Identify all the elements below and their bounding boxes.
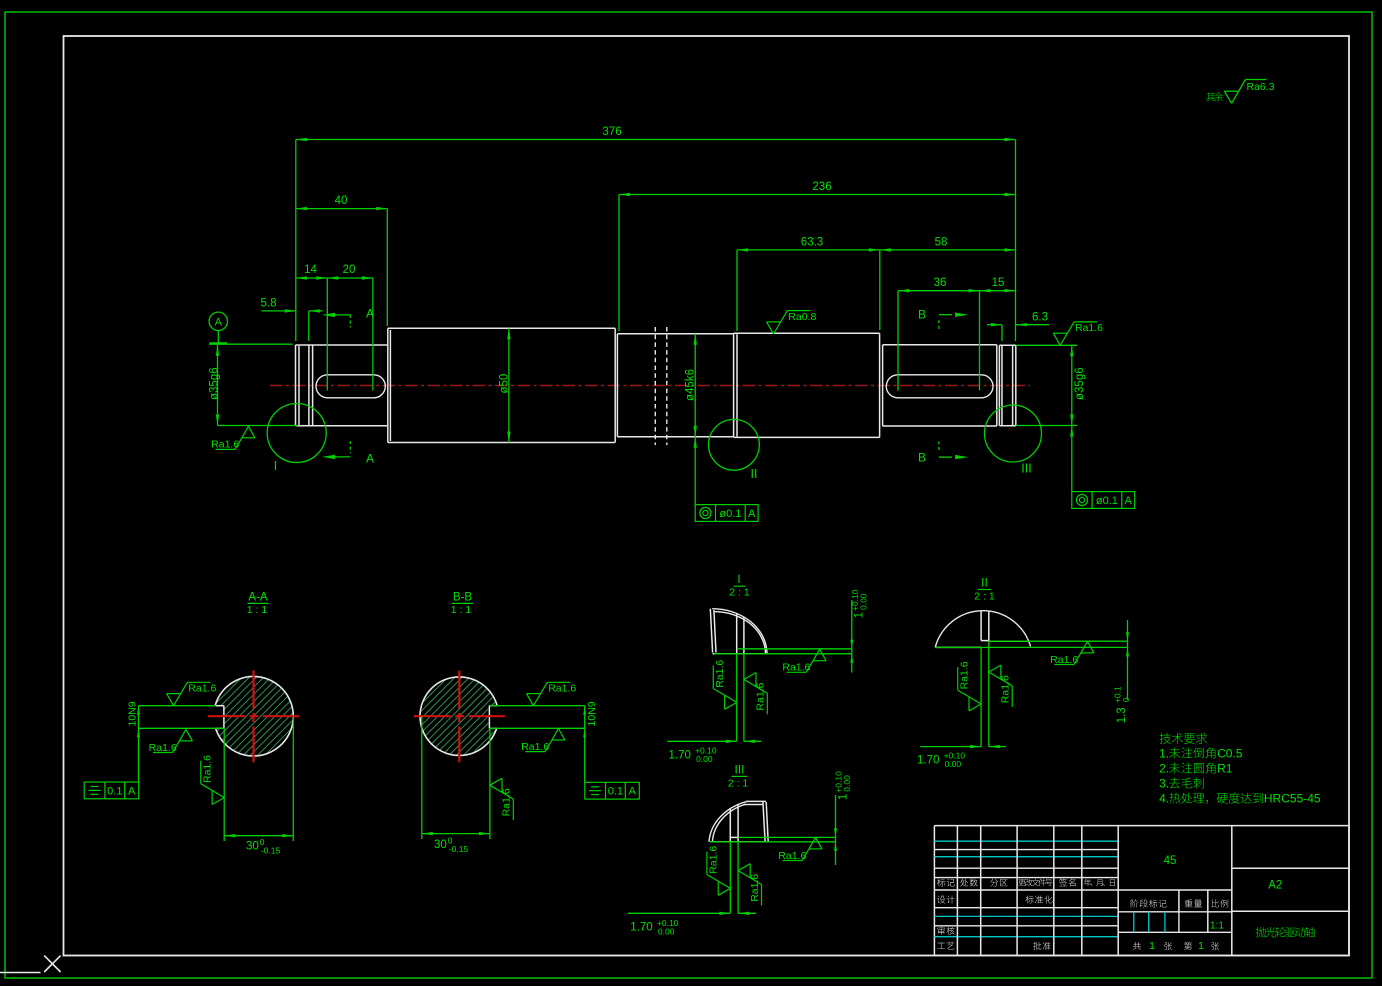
- svg-text:A: A: [748, 508, 756, 520]
- svg-text:1 : 1: 1 : 1: [247, 604, 268, 616]
- svg-text:HRC55-45: HRC55-45: [1264, 792, 1321, 806]
- svg-text:Ra1.6: Ra1.6: [188, 683, 216, 695]
- svg-text:II: II: [751, 467, 758, 481]
- svg-text:0.00: 0.00: [858, 593, 868, 610]
- svg-text:Ra0.8: Ra0.8: [788, 311, 816, 323]
- svg-text:1: 1: [854, 612, 866, 618]
- svg-text:236: 236: [812, 181, 831, 193]
- svg-text:0.00: 0.00: [658, 926, 675, 936]
- svg-text:30: 30: [246, 841, 259, 853]
- svg-text:14: 14: [304, 264, 317, 276]
- svg-text:A: A: [366, 451, 374, 465]
- svg-text:-0.15: -0.15: [449, 844, 469, 854]
- svg-text:III: III: [734, 763, 744, 777]
- svg-text:Ra1.6: Ra1.6: [521, 741, 549, 753]
- svg-text:Ra1.6: Ra1.6: [958, 661, 970, 689]
- svg-text:0: 0: [1121, 697, 1131, 702]
- svg-text:I: I: [737, 572, 740, 586]
- svg-text:1.70: 1.70: [917, 754, 939, 766]
- svg-text:A: A: [1125, 495, 1133, 507]
- svg-text:1 : 1: 1 : 1: [451, 604, 472, 616]
- svg-text:ø35g6: ø35g6: [1074, 367, 1086, 400]
- svg-text:58: 58: [935, 237, 948, 249]
- svg-text:Ra1.6: Ra1.6: [201, 755, 213, 783]
- svg-text:Ra1.6: Ra1.6: [1000, 675, 1012, 703]
- svg-text:B: B: [918, 450, 926, 464]
- svg-text:III: III: [1021, 462, 1031, 476]
- svg-text:1: 1: [1198, 940, 1204, 952]
- svg-text:R1: R1: [1217, 762, 1233, 776]
- svg-text:ø0.1: ø0.1: [719, 508, 741, 520]
- svg-text:1: 1: [1149, 940, 1155, 952]
- svg-text:5.8: 5.8: [261, 298, 277, 310]
- svg-text:6.3: 6.3: [1032, 312, 1048, 324]
- svg-text:ø45k6: ø45k6: [685, 369, 697, 401]
- svg-text:2 : 1: 2 : 1: [728, 778, 749, 790]
- svg-text:A: A: [128, 785, 136, 797]
- svg-text:376: 376: [602, 126, 621, 138]
- svg-text:Ra1.6: Ra1.6: [211, 439, 239, 451]
- svg-text:Ra1.6: Ra1.6: [149, 742, 177, 754]
- svg-text:10N9: 10N9: [586, 701, 598, 726]
- svg-text:2.: 2.: [1159, 762, 1169, 776]
- svg-text:15: 15: [992, 277, 1005, 289]
- svg-text:0.00: 0.00: [842, 775, 852, 792]
- svg-text:Ra6.3: Ra6.3: [1247, 81, 1275, 93]
- svg-text:45: 45: [1164, 855, 1177, 867]
- svg-text:1:1: 1:1: [1210, 921, 1224, 932]
- svg-text:Ra1.6: Ra1.6: [778, 850, 806, 862]
- svg-text:0.00: 0.00: [945, 759, 962, 769]
- svg-text:Ra1.6: Ra1.6: [782, 662, 810, 674]
- svg-text:36: 36: [934, 277, 947, 289]
- svg-text:A-A: A-A: [248, 592, 268, 604]
- svg-text:B: B: [918, 308, 926, 322]
- svg-text:A2: A2: [1268, 880, 1282, 892]
- svg-text:A: A: [629, 786, 637, 798]
- svg-text:1.70: 1.70: [669, 749, 691, 761]
- svg-text:1.: 1.: [1159, 747, 1169, 761]
- svg-text:Ra1.6: Ra1.6: [1075, 322, 1103, 334]
- svg-text:-0.15: -0.15: [261, 845, 281, 855]
- svg-text:ø35g6: ø35g6: [209, 367, 221, 400]
- svg-text:B-B: B-B: [453, 592, 473, 604]
- svg-text:Ra1.6: Ra1.6: [548, 683, 576, 695]
- svg-text:0.00: 0.00: [696, 754, 713, 764]
- svg-text:2 : 1: 2 : 1: [974, 591, 995, 603]
- svg-text:Ra1.6: Ra1.6: [708, 846, 720, 874]
- svg-text:Ra1.6: Ra1.6: [755, 682, 767, 710]
- svg-text:4.: 4.: [1159, 792, 1169, 806]
- svg-text:2 : 1: 2 : 1: [729, 586, 750, 598]
- svg-text:10N9: 10N9: [127, 701, 139, 726]
- svg-text:II: II: [981, 576, 988, 590]
- svg-text:3.: 3.: [1159, 777, 1169, 791]
- svg-text:ø0.1: ø0.1: [1096, 495, 1118, 507]
- svg-text:63.3: 63.3: [801, 237, 823, 249]
- svg-text:0.1: 0.1: [608, 786, 623, 798]
- svg-text:A: A: [215, 317, 223, 329]
- svg-text:Ra1.6: Ra1.6: [1050, 654, 1078, 666]
- svg-text:C0.5: C0.5: [1217, 747, 1243, 761]
- svg-text:Ra1.6: Ra1.6: [714, 660, 726, 688]
- svg-text:30: 30: [434, 839, 447, 851]
- svg-text:Ra1.6: Ra1.6: [749, 874, 761, 902]
- svg-text:I: I: [274, 459, 277, 473]
- svg-text:A: A: [366, 307, 374, 321]
- svg-text:20: 20: [343, 264, 356, 276]
- svg-text:0.1: 0.1: [107, 785, 122, 797]
- svg-text:40: 40: [335, 195, 348, 207]
- svg-text:1.3: 1.3: [1116, 707, 1128, 723]
- svg-text:1: 1: [837, 794, 849, 800]
- svg-text:1.70: 1.70: [630, 922, 652, 934]
- svg-text:Ra1.6: Ra1.6: [501, 788, 513, 816]
- svg-text:ø50: ø50: [499, 374, 511, 394]
